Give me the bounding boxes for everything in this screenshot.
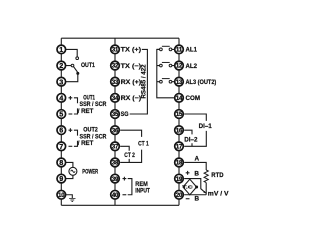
svg-text:DI–2: DI–2 [184,136,198,143]
svg-text:CT 1: CT 1 [138,140,149,147]
svg-text:TX (+): TX (+) [121,47,142,54]
svg-text:18: 18 [176,161,183,167]
svg-text:17: 17 [176,144,183,150]
svg-text:10: 10 [58,193,65,199]
svg-text:1: 1 [59,45,63,54]
svg-text:A: A [195,155,200,162]
svg-text:RS485 / 422: RS485 / 422 [142,64,148,99]
svg-text:7: 7 [59,142,63,151]
svg-text:35: 35 [112,112,119,118]
svg-text:36: 36 [112,128,119,134]
svg-text:DI–1: DI–1 [199,123,213,130]
svg-text:RX (+): RX (+) [121,79,142,86]
svg-text:CT 2: CT 2 [124,152,135,159]
svg-text:6: 6 [59,126,63,135]
svg-text:8: 8 [59,158,63,167]
svg-text:B: B [195,196,200,203]
svg-text:/ RET: / RET [78,108,94,115]
svg-text:19: 19 [176,177,183,183]
svg-text:COM: COM [186,95,201,102]
svg-text:38: 38 [112,161,119,167]
svg-text:SG: SG [121,111,129,118]
svg-text:31: 31 [112,48,119,54]
svg-text:11: 11 [176,48,183,54]
svg-text:3: 3 [59,77,63,86]
svg-text:13: 13 [176,80,183,86]
svg-text:15: 15 [176,112,183,118]
svg-text:RX (−): RX (−) [121,95,142,102]
svg-text:9: 9 [59,174,63,183]
svg-text:34: 34 [112,96,119,102]
svg-text:mV / V: mV / V [208,190,230,197]
svg-text:37: 37 [112,144,119,150]
svg-text:INPUT: INPUT [135,188,150,195]
svg-text:AL3 (OUT2): AL3 (OUT2) [186,79,217,86]
svg-text:20: 20 [176,193,183,199]
svg-text:T.C: T.C [182,185,193,191]
svg-text:4: 4 [59,93,63,102]
svg-text:14: 14 [176,96,183,102]
svg-text:33: 33 [112,80,119,86]
svg-text:TX (−): TX (−) [121,63,142,70]
svg-text:/ RET: / RET [78,140,94,147]
svg-text:OUT1: OUT1 [81,62,95,69]
svg-text:POWER: POWER [82,169,98,176]
svg-text:16: 16 [176,128,183,134]
svg-text:2: 2 [59,61,63,70]
svg-text:AL1: AL1 [186,47,198,54]
svg-text:B: B [194,171,199,178]
svg-text:RTD: RTD [211,172,224,179]
svg-text:5: 5 [59,110,63,119]
svg-text:12: 12 [176,64,183,70]
svg-text:39: 39 [112,177,119,183]
svg-text:32: 32 [112,64,119,70]
svg-text:AL2: AL2 [186,63,198,70]
svg-text:40: 40 [112,193,119,199]
